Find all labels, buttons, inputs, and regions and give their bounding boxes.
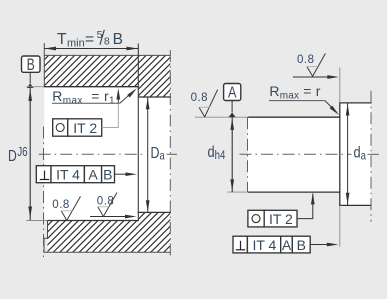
- svg-text:B: B: [113, 31, 123, 48]
- svg-text:A: A: [88, 167, 98, 183]
- svg-text:A: A: [228, 84, 237, 101]
- svg-text:B: B: [297, 237, 306, 253]
- svg-text:J6: J6: [17, 146, 27, 160]
- svg-text:B: B: [103, 167, 112, 183]
- svg-text:IT 2: IT 2: [269, 211, 293, 227]
- svg-text:IT 4: IT 4: [252, 237, 276, 253]
- svg-text:T: T: [57, 31, 67, 48]
- svg-text:0.8: 0.8: [297, 54, 315, 66]
- svg-text:8: 8: [104, 35, 110, 47]
- svg-text:min: min: [67, 38, 85, 50]
- svg-text:0.8: 0.8: [52, 199, 70, 211]
- svg-text:IT 4: IT 4: [56, 167, 80, 183]
- svg-text:=: =: [85, 31, 94, 48]
- svg-text:B: B: [27, 56, 35, 74]
- svg-text:0.8: 0.8: [191, 92, 209, 104]
- svg-text:D: D: [8, 147, 17, 165]
- svg-text:A: A: [282, 237, 292, 253]
- svg-text:IT 2: IT 2: [73, 120, 97, 136]
